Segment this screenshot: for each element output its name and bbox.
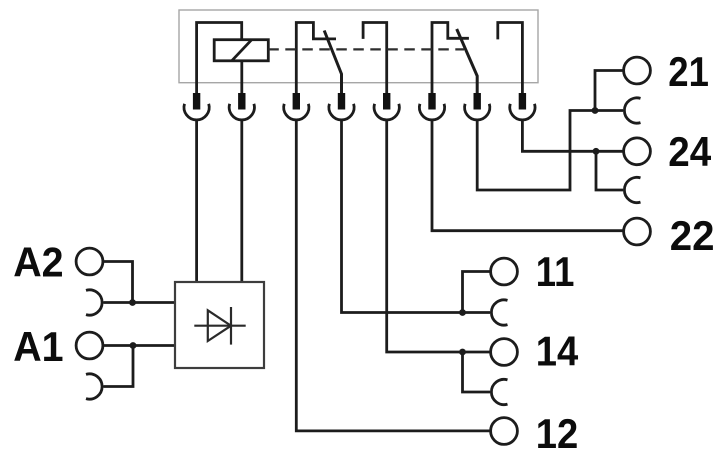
junction node at A1 branch [130,342,137,349]
terminal circle 22 [624,218,651,245]
svg-text:A2: A2 [13,239,63,286]
wire: pin 4 to socket under 11 [342,120,491,312]
terminal 7: plug pin and socket [465,93,490,120]
svg-text:12: 12 [536,412,578,450]
terminal circle 12 [491,418,518,445]
wire: terminal A2 circle to node [104,262,133,303]
junction node at A2 branch [129,299,136,306]
contact 2 NC fixed contact (pin 6) [432,23,469,109]
socket arc under 11 [491,300,507,325]
terminal 6: plug pin and socket [419,93,444,120]
contact 2 moving contact arm (pin 7) [457,29,478,108]
junction node at 24 branch [593,148,600,155]
contact 1 NO fixed contact (pin 5) [363,23,387,109]
terminal 3: plug pin and socket [284,93,309,120]
wire: coil bottom to pin 2 [240,61,243,108]
terminal 8: plug pin and socket [510,93,535,120]
wire: pin 8 to terminal 24 [522,120,623,151]
socket arc under A1 [86,374,102,399]
svg-text:11: 11 [536,250,575,296]
wire: socket under A2 to suppressor box [104,301,176,304]
terminal 4: plug pin and socket [329,93,354,120]
junction node at 14 branch [459,349,466,356]
module outline (relay socket housing) [179,10,538,83]
svg-text:A1: A1 [13,323,63,370]
terminal 2: plug pin and socket [229,93,254,120]
terminal circle 14 [491,339,518,366]
wire: pin 1 down to suppressor box top [195,120,198,282]
terminal 5: plug pin and socket [374,93,399,120]
terminal circle 21 [624,57,651,84]
socket arc under 21 [624,98,640,123]
wire: pin 7 to socket under 21 [477,111,623,191]
svg-text:21: 21 [668,50,709,96]
wire: node to terminal 21 circle [595,71,623,111]
wire: node to socket under 24 [596,151,623,190]
wire: coil top hook to pin 1 [197,23,242,109]
wire: pin 6 to terminal 22 [432,120,623,230]
suppressor / indicator box [175,282,264,368]
mechanical link (dashed) between coil and contacts [268,48,464,50]
wire: pin 2 down to suppressor box top [240,120,243,282]
svg-text:24: 24 [668,130,712,176]
contact 1 moving contact arm (pin 4) [324,31,341,109]
terminal circle 24 [624,138,651,165]
wire: node to socket under 14 [463,352,491,392]
wire: terminal 11 circle to node [463,272,491,313]
terminal 1: plug pin and socket [184,93,209,120]
terminal circle 11 [491,258,518,285]
contact 2 NO fixed contact (pin 8) [498,23,523,109]
terminal circle A1 [76,332,103,359]
socket arc under A2 [86,290,102,315]
socket arc under 14 [491,379,507,404]
contact 1 NC fixed contact (pin 3) [296,23,336,109]
socket arc under 24 [624,177,640,202]
junction node at 21 branch [592,107,599,114]
wire: pin 3 to terminal 12 [296,120,490,431]
wire: terminal A1 circle to suppressor box [104,344,176,347]
diode V1 inside box [194,307,245,345]
terminal circle A2 [76,248,103,275]
junction node at 11 branch [459,309,466,316]
relay coil K1 [214,40,268,61]
wire: socket under A1 to node [104,346,134,387]
svg-text:22: 22 [670,213,715,260]
wire: pin 5 to terminal 14 [387,120,490,352]
svg-text:14: 14 [536,329,578,375]
